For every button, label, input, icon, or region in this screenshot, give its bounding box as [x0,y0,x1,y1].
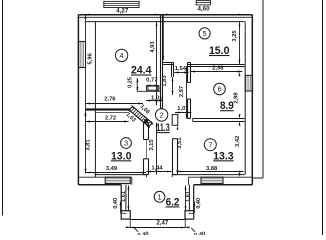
chimney box above top wall left [104,1,139,7]
svg-text:15.0: 15.0 [209,45,230,57]
top exterior wall [78,15,252,22]
room 7 left wall [173,139,178,175]
svg-text:8.9: 8.9 [220,100,234,112]
room 3 area 13.0 [111,150,132,162]
svg-text:2,98: 2,98 [212,65,224,71]
closet left wall corner leg [172,62,174,77]
svg-text:7: 7 [208,140,212,149]
dim 3,81 [85,112,92,173]
svg-text:24.4: 24.4 [131,65,152,77]
svg-text:3,42: 3,42 [235,136,241,147]
svg-text:3,51: 3,51 [177,137,183,149]
wall between rooms 4 and 5 / closet left [161,15,163,109]
niche box room 4 south-east [147,86,159,90]
wall left of room 6 lower [188,99,191,119]
room 5 area 15.0 [209,45,230,57]
dim 3,42 [235,121,241,177]
room 7 left wall jamb box [172,115,178,126]
left exterior wall [78,15,95,185]
dim 1,54 [174,66,188,73]
room 7 area 13.3 [213,150,234,162]
arrow at left furring line bottom [95,173,97,177]
room 5 circle [199,28,210,39]
dim 1,61 [185,186,192,211]
svg-text:1,54: 1,54 [175,66,187,72]
svg-text:0,40: 0,40 [113,198,119,209]
room 3 circle [121,138,132,149]
dim 3,88 [176,166,243,173]
svg-text:3,81: 3,81 [85,139,91,151]
dim 4,60 [163,5,242,15]
dim 2,47 [130,221,185,229]
dim 2,97 [179,66,188,118]
porch pier left [121,211,130,219]
dim 2,98 [234,72,241,119]
svg-text:1,44: 1,44 [151,166,163,172]
dim 1,03 along diagonal lower [125,108,151,128]
closet top wall stub from wall 4|5 [163,63,174,65]
door leaf room 3 [146,140,148,159]
svg-text:0,40: 0,40 [196,198,202,209]
window left wall room 4 [78,42,85,68]
svg-text:13.0: 13.0 [111,150,132,162]
right exterior wall [245,15,252,185]
bottom step dim 0,40 labels [130,219,206,239]
svg-text:2,97: 2,97 [179,86,185,97]
dim 3,49 [86,166,146,173]
window bottom wall room 3 [105,177,130,183]
svg-text:4,27: 4,27 [116,8,129,15]
dim 3,15 [149,123,157,175]
dim 1,83 [162,75,174,95]
svg-text:5,96: 5,96 [88,52,94,64]
svg-text:2,76: 2,76 [104,97,116,103]
svg-text:4: 4 [120,51,124,60]
porch front edge [130,219,185,221]
svg-text:1,61: 1,61 [186,191,192,202]
dim 2,98 [191,65,243,72]
room 6 circle [214,83,226,95]
corner flue diagonal in hall [129,107,152,127]
dim 2,76 [86,97,143,105]
wall left of room 6 upper [188,62,191,82]
window right wall room 6 [245,75,252,91]
nook wall lines room 4 [137,78,160,91]
room 4 area 24.4 [131,65,152,77]
svg-text:2,72: 2,72 [105,115,116,121]
room 5 left dim line [162,15,164,60]
svg-text:3,25: 3,25 [232,30,238,42]
svg-text:0,25: 0,25 [127,77,133,88]
dim 4,93 [150,22,158,106]
room 6 area 8.9 [220,100,234,112]
drawing frame right border [322,0,324,235]
dim 1,61 [121,186,129,211]
vent box above top wall right [196,1,210,5]
room 4 circle [115,49,127,61]
window bottom wall room 7 [201,177,223,183]
svg-text:6.2: 6.2 [166,196,180,208]
wall between room 6 and room 7 [193,119,245,122]
dim 5,96 [85,15,94,118]
svg-text:1,61: 1,61 [121,191,127,202]
porch left wall [121,185,126,211]
porch right wall [189,185,193,211]
dim 4,27 [85,8,158,16]
room 2 area 11.3 [156,122,170,134]
wall between room 5 and room 6 [188,65,245,67]
svg-text:1: 1 [157,192,161,201]
lean-to outline right of house [252,0,263,178]
svg-text:3: 3 [124,139,128,148]
svg-text:6: 6 [217,85,221,94]
flue black square [144,119,148,123]
room 2 circle [155,109,167,121]
dim 0,77 [146,78,159,87]
svg-text:3,88: 3,88 [206,166,218,172]
wall right of room 3 upper [144,123,149,140]
svg-text:1,01: 1,01 [151,95,163,101]
drawing frame left border [2,0,4,216]
dim 0,40 porch right [189,198,203,213]
svg-text:4,93: 4,93 [150,41,156,53]
svg-text:5: 5 [203,29,207,38]
dim 0,40 porch left [113,198,126,213]
bottom exterior wall [78,175,252,185]
dim 1,07 [175,106,191,113]
dim 0,25 [127,77,138,91]
wall right of room 3 lower [144,159,149,175]
partition between rooms 4 and 3 [86,110,131,113]
dim 1,01 [146,95,163,101]
svg-text:2: 2 [160,111,164,120]
dim 1,44 [147,166,172,173]
dim 2,47 outer arrowheads [126,226,190,228]
dim 1,06 along diagonal [131,104,154,126]
svg-text:13.3: 13.3 [213,150,234,162]
door opening jambs to porch [132,175,189,185]
room 7 circle [204,139,216,151]
svg-text:2,47: 2,47 [157,221,169,227]
room 1 circle [154,191,165,202]
svg-text:1,83: 1,83 [162,75,168,87]
svg-text:0,77: 0,77 [146,78,157,84]
svg-text:3,49: 3,49 [106,166,118,172]
dim 3,51 [177,126,183,175]
dim 2,72 [86,115,129,122]
svg-text:2,98: 2,98 [234,92,240,104]
svg-text:3,15: 3,15 [149,139,155,151]
dim 3,25 [232,22,240,64]
svg-text:11.3: 11.3 [156,122,170,134]
svg-text:4,60: 4,60 [197,5,210,12]
room 1 area 6.2 [166,196,180,208]
porch pier right [185,211,194,219]
